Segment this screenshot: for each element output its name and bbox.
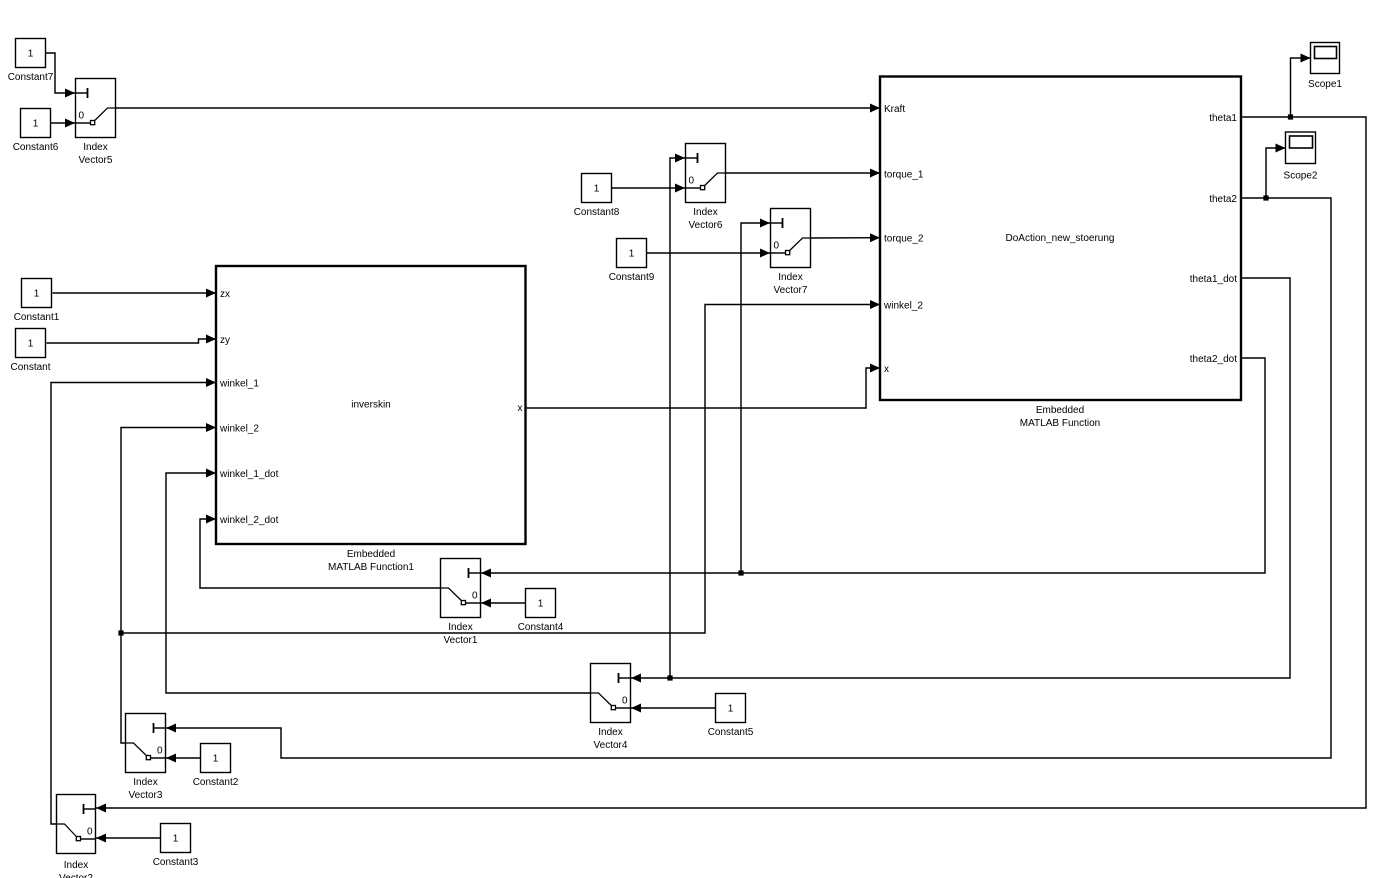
svg-text:1: 1 [28,339,34,350]
svg-text:zy: zy [220,335,230,346]
wire Constant3 to IndexVector2 data [96,834,161,843]
svg-text:0: 0 [157,746,163,757]
svg-text:Index: Index [448,622,472,633]
svg-text:0: 0 [87,827,93,838]
svg-text:0: 0 [472,591,478,602]
wire theta2_dot feedback to IndexVector1 control [481,358,1265,578]
block Constant (Constant, value 1) [10,329,50,374]
svg-text:Vector2: Vector2 [59,873,93,878]
wire theta2 feedback to IndexVector3 control [166,198,1331,758]
svg-text:Vector7: Vector7 [774,285,808,296]
svg-text:0: 0 [79,111,85,122]
block Scope2 (Scope) [1284,132,1318,181]
svg-text:Constant5: Constant5 [708,727,754,738]
junction theta2_dot/IndexVector7 [738,570,743,575]
svg-text:torque_2: torque_2 [884,234,924,245]
svg-text:0: 0 [622,696,628,707]
svg-text:Constant2: Constant2 [193,777,239,788]
svg-text:1: 1 [728,704,734,715]
svg-text:torque_1: torque_1 [884,169,924,180]
svg-text:Embedded: Embedded [347,549,395,560]
wire Constant8 to IndexVector6 data [612,184,686,193]
svg-text:1: 1 [538,599,544,610]
svg-text:winkel_2_dot: winkel_2_dot [219,515,279,526]
wire theta1_dot feedback to IndexVector4 control [631,278,1290,683]
svg-text:Constant4: Constant4 [518,622,564,633]
svg-text:Constant6: Constant6 [13,142,59,153]
svg-text:Index: Index [598,727,622,738]
svg-text:1: 1 [34,289,40,300]
svg-text:Scope1: Scope1 [1308,79,1342,90]
svg-text:Constant9: Constant9 [609,272,655,283]
svg-text:MATLAB Function: MATLAB Function [1020,418,1100,429]
block Constant6 (Constant, value 1) [13,109,59,154]
svg-text:Constant7: Constant7 [8,72,54,83]
svg-text:1: 1 [213,754,219,765]
wire Constant1 to zx input [53,289,217,298]
svg-text:x: x [884,364,889,375]
svg-text:0: 0 [689,176,695,187]
wire Constant9 to IndexVector7 data [647,249,771,258]
wire IndexVector5 to Kraft input [116,104,880,113]
svg-text:Constant3: Constant3 [153,857,199,868]
block Constant3 (Constant, value 1) [153,824,199,869]
svg-text:1: 1 [28,49,34,60]
wire theta2 branch to Scope2 [1266,144,1286,199]
svg-text:theta1: theta1 [1209,113,1237,124]
wire Constant6 to IndexVector5 data [51,119,76,128]
block Index Vector4 (Multiport Switch) [591,664,631,752]
svg-text:Vector1: Vector1 [444,635,478,646]
svg-text:x: x [518,403,523,414]
block Index Vector3 (Multiport Switch) [126,714,166,802]
wire theta1 feedback to IndexVector2 control [96,117,1366,813]
svg-text:zx: zx [220,289,230,300]
wire IndexVector2 output to winkel_1 input [51,378,216,824]
block Index Vector5 (Multiport Switch) [76,79,116,167]
svg-text:Constant: Constant [10,362,50,373]
svg-text:theta1_dot: theta1_dot [1190,274,1237,285]
block Constant7 (Constant, value 1) [8,39,54,84]
svg-text:MATLAB Function1: MATLAB Function1 [328,562,414,573]
svg-text:1: 1 [629,249,635,260]
block Constant8 (Constant, value 1) [574,174,620,219]
wire branch winkel_2 to DoAction winkel_2 input [121,300,880,633]
block Embedded MATLAB Function (DoAction_new_stoerung) [880,77,1241,430]
svg-text:Scope2: Scope2 [1284,170,1318,181]
wire theta2_dot branch to IndexVector7 control [741,219,770,574]
svg-text:winkel_2: winkel_2 [883,300,923,311]
svg-text:Index: Index [778,272,802,283]
svg-text:Kraft: Kraft [884,104,905,115]
block Index Vector7 (Multiport Switch) [771,209,811,297]
block Constant1 (Constant, value 1) [14,279,60,324]
svg-text:0: 0 [774,241,780,252]
block Constant9 (Constant, value 1) [609,239,655,284]
junction winkel_2 branch [118,630,123,635]
wire Constant2 to IndexVector3 data [166,754,201,763]
wire Constant4 to IndexVector1 data [481,599,526,608]
block Index Vector1 (Multiport Switch) [441,559,481,647]
wire inverskin x output to DoAction x input [526,364,881,409]
junction theta1_dot/IndexVector6 [667,675,672,680]
wire Constant5 to IndexVector4 data [631,704,716,713]
block Index Vector6 (Multiport Switch) [686,144,726,232]
svg-text:1: 1 [173,834,179,845]
svg-text:DoAction_new_stoerung: DoAction_new_stoerung [1006,233,1115,244]
svg-text:Constant1: Constant1 [14,312,60,323]
wire IndexVector6 to torque_1 input [726,169,880,178]
block Constant5 (Constant, value 1) [708,694,754,739]
wire Constant to zy input [47,335,217,344]
svg-text:Constant8: Constant8 [574,207,620,218]
svg-text:Index: Index [133,777,157,788]
svg-text:Index: Index [693,207,717,218]
junction theta1/Scope1 [1288,114,1293,119]
svg-text:Index: Index [83,142,107,153]
svg-text:Vector5: Vector5 [79,155,113,166]
svg-text:Index: Index [64,860,88,871]
junction theta2/Scope2 [1263,195,1268,200]
block Index Vector2 (Multiport Switch) [57,795,96,878]
svg-text:Embedded: Embedded [1036,405,1084,416]
svg-text:inverskin: inverskin [351,400,390,411]
svg-text:winkel_2: winkel_2 [219,423,259,434]
block Constant4 (Constant, value 1) [518,589,564,634]
block Constant2 (Constant, value 1) [193,744,239,789]
svg-text:theta2: theta2 [1209,194,1237,205]
svg-text:theta2_dot: theta2_dot [1190,354,1237,365]
svg-text:Vector4: Vector4 [594,740,628,751]
svg-text:1: 1 [594,184,600,195]
svg-text:Vector6: Vector6 [689,220,723,231]
svg-text:Vector3: Vector3 [129,790,163,801]
svg-text:winkel_1: winkel_1 [219,378,259,389]
wire theta1_dot branch to IndexVector6 control [670,154,685,679]
wire IndexVector7 to torque_2 input [811,233,880,242]
svg-text:winkel_1_dot: winkel_1_dot [219,469,279,480]
wire IndexVector3 output to winkel_2 input [121,423,216,743]
wire Constant7 to IndexVector5 control [46,53,76,98]
wire IndexVector1 output to winkel_2_dot input [200,515,440,589]
wire IndexVector4 output to winkel_1_dot input [166,469,590,694]
block Scope1 (Scope) [1308,43,1342,91]
block Embedded MATLAB Function1 (inverskin) [216,266,526,573]
wire theta1 branch to Scope1 [1291,54,1311,118]
svg-text:1: 1 [33,119,39,130]
